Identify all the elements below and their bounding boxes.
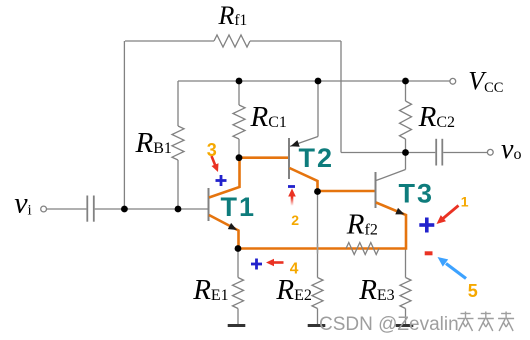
svg-text:T3: T3 <box>399 179 435 209</box>
svg-text:RE3: RE3 <box>358 274 395 306</box>
svg-text:RE1: RE1 <box>192 274 229 306</box>
svg-text:RC1: RC1 <box>250 101 287 133</box>
svg-text:VCC: VCC <box>468 67 503 97</box>
svg-text:4: 4 <box>290 261 299 278</box>
svg-text:CSDN @Zevalin: CSDN @Zevalin <box>319 314 459 335</box>
svg-text:RC2: RC2 <box>418 101 455 133</box>
svg-text:T2: T2 <box>299 143 335 173</box>
svg-text:5: 5 <box>468 281 478 301</box>
svg-text:vo: vo <box>501 134 521 165</box>
svg-text:Rf1: Rf1 <box>218 1 248 30</box>
svg-text:vi: vi <box>14 187 32 220</box>
svg-text:3: 3 <box>207 140 217 160</box>
svg-text:RE2: RE2 <box>275 274 312 306</box>
svg-text:RB1: RB1 <box>135 127 172 159</box>
svg-text:1: 1 <box>461 193 469 209</box>
svg-text:Rf2: Rf2 <box>346 209 378 241</box>
svg-text:T1: T1 <box>221 192 257 222</box>
svg-text:2: 2 <box>291 212 299 228</box>
